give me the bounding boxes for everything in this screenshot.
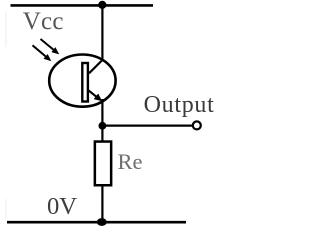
faint left border remnant top (5, 11, 7, 47)
svg-text:Vcc: Vcc (23, 8, 64, 35)
node: output junction dot (99, 122, 107, 130)
wire emitter down to output node (101, 99, 103, 127)
phototransistor Q1 collector lead (89, 60, 102, 73)
phototransistor Q1 envelope (49, 55, 115, 107)
node: 0V junction dot (97, 218, 107, 226)
light arrow 1 (41, 39, 55, 50)
phototransistor Q1 base bar (82, 63, 88, 102)
wire output (102, 124, 192, 126)
light arrow 2 (33, 45, 47, 57)
wire resistor to 0V rail (101, 185, 103, 222)
0V rail wire (7, 221, 186, 224)
svg-text:Output: Output (144, 92, 215, 118)
Vcc rail wire (11, 4, 154, 7)
phototransistor Q1 emitter lead with arrow (88, 90, 96, 97)
faint left border remnant bottom (5, 199, 7, 219)
node: Vcc junction dot (98, 1, 106, 9)
svg-text:Re: Re (118, 149, 143, 174)
resistor Re body (95, 142, 111, 186)
wire collector to Vcc (101, 5, 103, 61)
wire node to resistor (101, 126, 103, 145)
output terminal (open circle) (193, 121, 201, 129)
svg-text:0V: 0V (47, 193, 77, 220)
